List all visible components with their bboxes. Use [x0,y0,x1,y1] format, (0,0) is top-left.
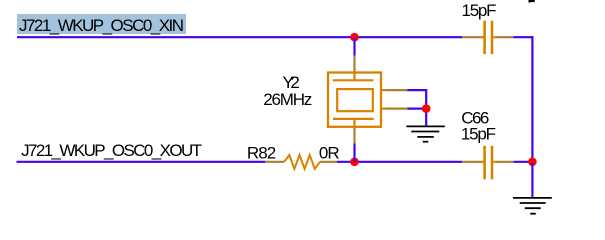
svg-text:J721_WKUP_OSC0_XOUT: J721_WKUP_OSC0_XOUT [21,141,202,160]
junction node XIN/crystal [350,33,359,42]
wire net XOUT horizontal [17,161,266,163]
crystal Y2 pin 3 (upper case lead) [381,89,386,91]
svg-text:15pF: 15pF [461,125,496,144]
junction node crystal case [422,104,431,113]
wire XIN down to crystal pin 1 [353,37,355,55]
svg-text:J721_WKUP_OSC0_XIN: J721_WKUP_OSC0_XIN [19,16,184,35]
junction node C66/right vertical [528,158,537,167]
wire crystal case pins to ground junction [407,90,426,126]
crystal Y2 body [328,73,381,127]
ground symbol (bottom right) [513,198,552,214]
wire crystal pin 2 down to XOUT [353,144,355,162]
wire C66 to right vertical [514,161,533,163]
svg-text:15pF: 15pF [462,1,497,20]
svg-text:26MHz: 26MHz [263,90,312,109]
crystal Y2 pin 2 (bottom lead) [353,119,355,128]
capacitor C65 (top 15pF) [462,21,514,54]
wire junction down to ground [531,162,533,198]
wire net XIN horizontal [17,36,463,38]
ground symbol (crystal case) [406,126,445,141]
resistor R82 [265,155,337,169]
net label J721_WKUP_OSC0_XIN (selected highlight) [17,14,186,35]
wire from C65 to right corner and down [513,36,534,162]
cropped text fragment top right [529,0,535,3]
crystal Y2 pin 4 (lower case lead) [381,107,386,109]
svg-text:R82: R82 [247,144,276,163]
svg-text:0R: 0R [319,144,340,163]
capacitor C66 [462,146,514,180]
junction node XOUT/crystal [350,158,359,167]
wire resistor to C66 [337,161,463,163]
crystal Y2 pin 1 (top lead) [353,56,355,73]
